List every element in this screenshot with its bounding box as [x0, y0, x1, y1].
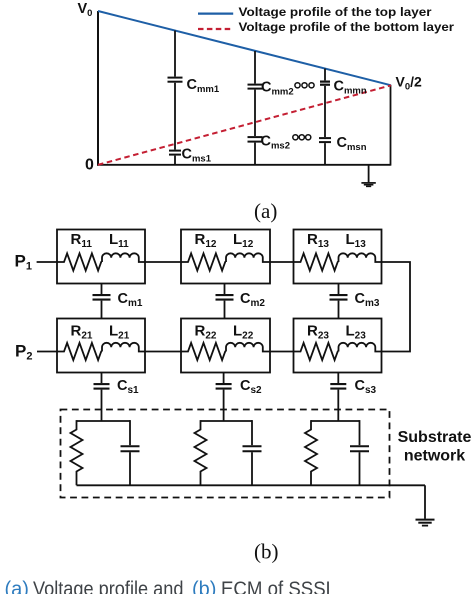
ground (b) bars — [416, 520, 435, 526]
svg-text:Voltage profile and: Voltage profile and — [33, 579, 184, 594]
capacitor Cm2 plates — [216, 295, 234, 300]
capacitor Cmsn — [319, 138, 331, 142]
ground (b) stem — [424, 485, 426, 519]
figure caption — [5, 579, 337, 594]
capacitor Cmmn — [320, 82, 330, 85]
capacitor Cms2 — [248, 137, 263, 142]
capacitor Cm3 plates — [330, 295, 348, 300]
inductor L21 — [102, 343, 145, 352]
dots between Cmm2 and Cmmn — [295, 83, 314, 88]
inductor L11 — [102, 253, 145, 262]
wire box1-box2 row2 — [145, 351, 181, 353]
wire box2-box3 row2 — [270, 351, 294, 353]
capacitor Cm1 stem — [101, 284, 103, 319]
substrate cell 3 top wire — [311, 420, 360, 422]
substrate cell 1 resistor — [71, 420, 83, 485]
substrate cell 3 resistor — [305, 420, 317, 485]
substrate cell 2 top wire — [201, 420, 253, 422]
resistor R23 — [294, 343, 339, 360]
wire P2 to box R21L21 — [37, 351, 57, 353]
svg-text:Voltage profile of the bottom: Voltage profile of the bottom layer — [239, 20, 455, 34]
wire branch 1 (x=175) — [174, 31, 176, 166]
wire left vertical (a) — [97, 11, 99, 166]
capacitor Cs1 plates — [94, 384, 110, 389]
svg-text:(a): (a) — [254, 199, 277, 223]
capacitor Cmm2 — [248, 85, 263, 89]
wire right vertical (a) — [390, 85, 392, 166]
box R12 L12 — [181, 230, 270, 284]
capacitor Cm3 stem — [338, 284, 340, 319]
svg-text:(b): (b) — [192, 579, 216, 594]
wire branch 2 (x=255) — [254, 51, 256, 165]
svg-text:ECM of SSSL: ECM of SSSL — [221, 579, 336, 594]
inductor L13 — [339, 253, 382, 262]
box R11 L11 — [57, 230, 145, 284]
legend blue line sample — [198, 13, 233, 15]
capacitor Cm1 plates — [93, 295, 111, 300]
box R23 L23 — [294, 319, 382, 373]
capacitor Cm2 stem — [224, 284, 226, 319]
substrate cell 3 capacitor — [359, 420, 361, 445]
resistor R22 — [181, 343, 226, 360]
substrate cell 1 top wire — [77, 420, 131, 422]
substrate cell 2 capacitor — [251, 420, 253, 445]
wire right connector row1-row2 — [382, 262, 411, 352]
ground (a) bars — [361, 183, 375, 187]
box R13 L13 — [294, 230, 382, 284]
wire branch 3 (x=325) — [324, 69, 326, 166]
capacitor Cs2 stem — [223, 373, 225, 422]
resistor R21 — [57, 343, 102, 360]
resistor R11 — [57, 253, 102, 270]
ground (a) stem — [368, 165, 370, 182]
wire box1-box2 row1 — [145, 261, 181, 263]
capacitor Cs1 stem — [101, 373, 103, 422]
resistor R12 — [181, 253, 226, 270]
blue voltage profile of the top layer — [98, 11, 391, 85]
substrate network dashed box — [61, 410, 390, 498]
svg-text:network: network — [404, 447, 465, 464]
wire bottom (a) — [97, 164, 391, 166]
wire box2-box3 row1 — [270, 261, 294, 263]
red voltage profile of the bottom layer — [98, 85, 391, 165]
svg-text:(b): (b) — [254, 540, 279, 564]
legend red dashed line sample — [198, 28, 233, 30]
inductor L23 — [339, 343, 382, 352]
svg-text:Substrate: Substrate — [398, 429, 472, 446]
box R21 L21 — [57, 319, 145, 373]
svg-text:(a): (a) — [5, 579, 29, 594]
resistor R13 — [294, 253, 339, 270]
substrate cell 2 resistor — [195, 420, 207, 485]
svg-text:Voltage profile of the top lay: Voltage profile of the top layer — [239, 5, 432, 19]
svg-text:0: 0 — [85, 157, 94, 174]
capacitor Cs3 stem — [337, 373, 339, 422]
box R22 L22 — [181, 319, 270, 373]
dots between Cms2 and Cmsn — [293, 135, 311, 140]
inductor L12 — [226, 253, 270, 262]
capacitor Cmm1 — [168, 78, 183, 82]
capacitor Cs2 plates — [216, 384, 232, 389]
wire P1 to box R11L11 — [37, 261, 57, 263]
wire ground bus — [77, 484, 426, 486]
inductor L22 — [226, 343, 270, 352]
capacitor Cs3 plates — [330, 384, 346, 389]
substrate cell 1 capacitor — [129, 420, 131, 445]
capacitor Cms1 — [169, 151, 181, 155]
